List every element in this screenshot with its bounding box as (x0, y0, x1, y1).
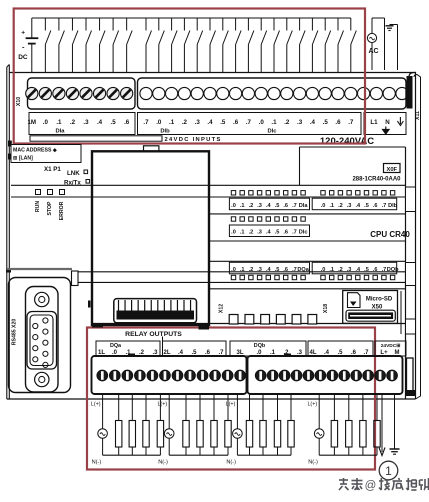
svg-text:.6: .6 (373, 203, 378, 209)
svg-text:.5: .5 (111, 119, 117, 126)
svg-text:24VDC INPUTS: 24VDC INPUTS (165, 137, 222, 143)
svg-text:RELAY OUTPUTS: RELAY OUTPUTS (125, 331, 182, 338)
svg-text:AC: AC (369, 48, 379, 55)
svg-text:.1: .1 (240, 267, 245, 273)
svg-text:.5: .5 (220, 119, 226, 126)
svg-text:.0: .0 (231, 230, 236, 236)
svg-text:N(-): N(-) (158, 460, 168, 466)
svg-text:.5: .5 (364, 203, 369, 209)
svg-text:X11: X11 (415, 111, 421, 120)
svg-text:DIb: DIb (160, 129, 170, 135)
svg-text:.2: .2 (249, 203, 254, 209)
svg-text:.0: .0 (231, 267, 236, 273)
svg-text:.6: .6 (283, 267, 288, 273)
svg-text:X0F: X0F (386, 167, 397, 173)
svg-text:DQa: DQa (110, 343, 122, 349)
svg-text:+: + (21, 30, 25, 37)
svg-text:DIa: DIa (299, 203, 309, 209)
svg-text:⊞ [LAN]: ⊞ [LAN] (13, 156, 33, 162)
svg-text:.1: .1 (240, 230, 245, 236)
svg-text:.0: .0 (259, 119, 265, 126)
svg-text:L(+): L(+) (307, 402, 317, 408)
svg-text:X1 P1: X1 P1 (44, 166, 61, 173)
svg-text:N(-): N(-) (226, 460, 236, 466)
svg-text:.5: .5 (364, 267, 369, 273)
svg-text:RS485 X20: RS485 X20 (12, 319, 18, 346)
svg-text:.6: .6 (335, 119, 341, 126)
svg-text:.5: .5 (323, 119, 329, 126)
svg-text:.4: .4 (97, 119, 103, 126)
svg-text:.0: .0 (231, 203, 236, 209)
svg-text:.0: .0 (156, 119, 162, 126)
svg-text:.4: .4 (207, 119, 213, 126)
svg-text:.1: .1 (240, 203, 245, 209)
svg-text:.3: .3 (257, 203, 262, 209)
svg-text:L1: L1 (370, 119, 378, 126)
svg-text:.6: .6 (233, 119, 239, 126)
svg-text:.6: .6 (283, 203, 288, 209)
svg-text:.6: .6 (373, 267, 378, 273)
svg-text:.7: .7 (382, 203, 387, 209)
svg-text:.1: .1 (329, 267, 334, 273)
svg-text:L(+): L(+) (226, 402, 236, 408)
svg-text:.7: .7 (292, 267, 297, 273)
svg-text:288-1CR40-0AA0: 288-1CR40-0AA0 (352, 177, 401, 183)
svg-text:DIa: DIa (55, 129, 65, 135)
svg-text:.7: .7 (246, 119, 252, 126)
svg-text:.7: .7 (143, 119, 149, 126)
svg-text:X18: X18 (323, 304, 329, 313)
svg-text:.7: .7 (292, 230, 297, 236)
svg-text:.3: .3 (257, 267, 262, 273)
svg-text:N(-): N(-) (308, 460, 318, 466)
svg-text:.0: .0 (321, 267, 326, 273)
svg-text:.0: .0 (43, 119, 49, 126)
svg-text:1: 1 (385, 464, 392, 478)
svg-text:.2: .2 (284, 119, 290, 126)
svg-text:.1: .1 (271, 119, 277, 126)
svg-text:.7: .7 (292, 203, 297, 209)
svg-text:.3: .3 (347, 203, 352, 209)
svg-text:1M: 1M (27, 119, 36, 126)
svg-text:DQb: DQb (254, 343, 266, 349)
svg-text:.5: .5 (275, 230, 280, 236)
svg-text:.2: .2 (182, 119, 188, 126)
svg-text:DQa: DQa (297, 267, 309, 273)
svg-text:.7: .7 (382, 267, 387, 273)
svg-text:Micro-SD: Micro-SD (366, 297, 393, 303)
svg-text:MAC ADDRESS ◆: MAC ADDRESS ◆ (13, 148, 57, 154)
svg-text:.5: .5 (275, 267, 280, 273)
svg-text:.1: .1 (329, 203, 334, 209)
svg-text:DIb: DIb (388, 203, 398, 209)
svg-text:X12: X12 (218, 304, 224, 313)
svg-text:.2: .2 (338, 267, 343, 273)
svg-text:L(+): L(+) (91, 402, 101, 408)
svg-text:.1: .1 (56, 119, 62, 126)
svg-text:CPU CR40: CPU CR40 (370, 230, 410, 239)
svg-text:24VDC⊞: 24VDC⊞ (381, 343, 400, 349)
svg-text:DQb: DQb (387, 267, 399, 273)
svg-text:.6: .6 (283, 230, 288, 236)
svg-text:STOP: STOP (47, 201, 53, 216)
svg-text:DIc: DIc (267, 129, 277, 135)
svg-text:LNK: LNK (67, 170, 80, 177)
svg-text:Rx/Tx: Rx/Tx (64, 180, 81, 187)
svg-text:.0: .0 (321, 203, 326, 209)
svg-text:X10: X10 (16, 97, 22, 106)
svg-text:N: N (385, 119, 390, 126)
svg-text:.6: .6 (124, 119, 130, 126)
svg-text:L(+): L(+) (157, 402, 167, 408)
svg-text:DC: DC (18, 54, 28, 61)
svg-text:.2: .2 (338, 203, 343, 209)
svg-text:@: @ (365, 480, 377, 492)
svg-text:.2: .2 (249, 267, 254, 273)
svg-text:.5: .5 (275, 203, 280, 209)
svg-text:.4: .4 (310, 119, 316, 126)
svg-text:.3: .3 (257, 230, 262, 236)
svg-text:DIc: DIc (299, 230, 308, 236)
svg-text:.7: .7 (348, 119, 354, 126)
svg-text:.3: .3 (347, 267, 352, 273)
svg-text:.2: .2 (249, 230, 254, 236)
svg-text:.3: .3 (297, 119, 303, 126)
svg-text:.2: .2 (70, 119, 76, 126)
svg-text:ERROR: ERROR (59, 201, 65, 220)
svg-text:.3: .3 (83, 119, 89, 126)
svg-text:.1: .1 (169, 119, 175, 126)
svg-text:RUN: RUN (35, 201, 41, 212)
svg-text:.3: .3 (195, 119, 201, 126)
svg-text:N(-): N(-) (92, 460, 102, 466)
